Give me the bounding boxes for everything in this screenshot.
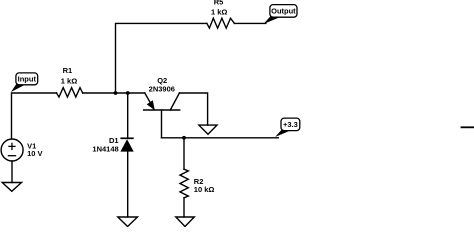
ground D1 xyxy=(118,217,138,227)
svg-text:Output: Output xyxy=(271,7,296,16)
transistor Q2 emitter arrow xyxy=(147,101,154,109)
V1 minus sign xyxy=(8,155,16,157)
wire junction A up and top rail to R5 xyxy=(116,23,207,93)
transistor Q2 base bar xyxy=(144,109,180,111)
flag Output tail xyxy=(264,16,282,24)
wire base down xyxy=(161,110,163,138)
transistor Q2 collector line xyxy=(170,93,179,110)
flag Input box xyxy=(16,73,38,85)
wire R1 to emitter xyxy=(83,92,145,94)
junction dot R2 xyxy=(182,136,186,140)
wire base node to R2 xyxy=(183,138,185,169)
svg-text:+3.3: +3.3 xyxy=(283,120,298,129)
wire base node to +3.3 flag xyxy=(162,137,279,139)
wire R5 to Output flag xyxy=(234,22,265,24)
resistor R2 xyxy=(180,169,188,198)
ground V1 xyxy=(2,183,21,192)
wire stub right edge xyxy=(462,126,474,128)
flag +3.3 tail xyxy=(275,130,291,137)
wire D1 to ground xyxy=(127,152,129,218)
diode D1 xyxy=(120,139,133,151)
ground collector xyxy=(199,125,217,134)
diode D1 cathode bar xyxy=(120,137,133,139)
svg-text:R5: R5 xyxy=(214,0,224,6)
svg-text:Input: Input xyxy=(18,75,37,84)
wire R2 to ground xyxy=(183,198,185,217)
svg-text:1 kΩ: 1 kΩ xyxy=(211,8,227,17)
ground R2 xyxy=(176,217,195,227)
transistor Q2 emitter line xyxy=(145,93,155,110)
wire V1 to ground xyxy=(11,161,13,183)
flag +3.3 box xyxy=(281,118,300,131)
wire junction B down to D1 xyxy=(127,93,129,138)
junction dot A xyxy=(114,91,118,95)
svg-text:2N3906: 2N3906 xyxy=(149,84,175,93)
junction dot B xyxy=(126,91,130,95)
wire input corner to R1 xyxy=(12,93,57,138)
resistor R1 xyxy=(57,88,83,97)
wire collector to ground xyxy=(179,93,207,125)
svg-text:10 kΩ: 10 kΩ xyxy=(194,185,215,194)
svg-text:1N4148: 1N4148 xyxy=(92,144,118,153)
flag Input tail xyxy=(11,84,26,92)
svg-text:R1: R1 xyxy=(63,66,73,75)
svg-text:10 V: 10 V xyxy=(27,149,42,158)
resistor R5 xyxy=(207,18,235,28)
voltage source V1 circle xyxy=(1,139,23,161)
svg-text:1 kΩ: 1 kΩ xyxy=(61,76,77,85)
V1 plus sign xyxy=(8,143,16,156)
flag Output box xyxy=(270,5,297,18)
